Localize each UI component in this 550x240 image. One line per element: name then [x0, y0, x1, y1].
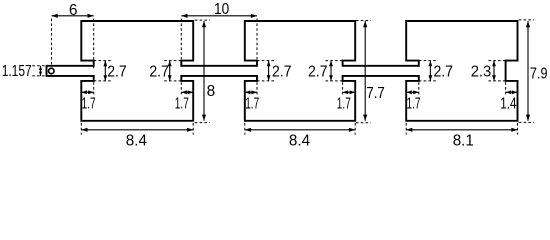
dimension 2.3 (section3 right recess height) — [493, 61, 495, 81]
svg-text:7.9: 7.9 — [530, 66, 548, 83]
svg-text:1.7: 1.7 — [245, 96, 259, 113]
dimension 2.7 (section2 left recess height) — [268, 61, 270, 81]
dimension 6 (hole center to left recess face) — [52, 15, 94, 17]
svg-text:1.7: 1.7 — [337, 96, 351, 113]
dimension 1.4 (section3 right recess depth) — [506, 91, 518, 93]
svg-text:1.7: 1.7 — [175, 96, 189, 113]
hole in left web — [49, 68, 55, 74]
svg-text:7.7: 7.7 — [366, 85, 384, 102]
dimension 8.4 (section2 width) — [245, 129, 355, 131]
dimension 1.7 (section3 left recess depth) — [406, 91, 419, 93]
svg-text:8.4: 8.4 — [126, 132, 148, 148]
dimension 8.1 (section3 width) — [406, 129, 517, 131]
dimension 1.7 (section1 left recess depth) — [81, 91, 93, 93]
dimension 1.7 (section2 left recess depth) — [245, 91, 257, 93]
dimension 8.4 (section1 width) — [81, 129, 193, 131]
dimension 7.7 (section2 height) — [364, 21, 366, 121]
svg-text:6: 6 — [69, 2, 78, 19]
dimension 10 (span between recess faces of sections 1 and 2) — [181, 15, 257, 17]
svg-text:2.7: 2.7 — [272, 64, 292, 81]
svg-text:1.7: 1.7 — [407, 96, 421, 113]
svg-text:2.7: 2.7 — [308, 64, 328, 81]
svg-text:1.7: 1.7 — [82, 96, 96, 113]
svg-text:2.7: 2.7 — [107, 64, 127, 81]
svg-text:8: 8 — [207, 83, 216, 100]
profile outline (3 interlocked sections with webs) — [47, 21, 518, 121]
svg-text:8.1: 8.1 — [453, 132, 474, 148]
dimension 2.7 (section2 right recess height) — [330, 61, 332, 81]
svg-text:10: 10 — [214, 1, 230, 18]
svg-text:8.4: 8.4 — [289, 132, 311, 148]
dimension 2.7 (section1 left recess height) — [104, 61, 106, 81]
dimension 7.9 (section3 height) — [527, 21, 529, 121]
svg-text:1.4: 1.4 — [500, 96, 516, 113]
svg-text:2.7: 2.7 — [149, 64, 169, 81]
dimension 1.7 (section2 right recess depth) — [343, 91, 356, 93]
svg-text:2.7: 2.7 — [434, 64, 454, 81]
svg-text:2.3: 2.3 — [471, 64, 492, 81]
dimension 2.7 (section1 right recess height) — [169, 61, 171, 81]
dimension 1.7 (section1 right recess depth) — [181, 91, 193, 93]
dimension 1.157 (web thickness at hole) — [40, 66, 42, 76]
dimension 2.7 (section3 left recess height) — [429, 61, 431, 81]
dimension 8 (section1 height) — [203, 21, 205, 121]
svg-text:1.157: 1.157 — [2, 63, 32, 80]
